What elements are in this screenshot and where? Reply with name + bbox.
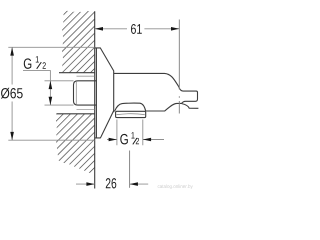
wall face line	[94, 11, 96, 188]
G1/2 bottom dim stubs	[107, 139, 164, 141]
dim ext line top (d65)	[8, 46, 94, 48]
wall hole bottom edge	[57, 113, 95, 115]
arrow 26 left	[86, 182, 94, 186]
centerline holder	[178, 20, 180, 114]
arrow d65 down	[10, 132, 14, 140]
watermark	[158, 184, 193, 189]
label d65	[1, 88, 23, 99]
label G1/2 bottom	[120, 134, 128, 144]
arrow G1/2 bottom left	[109, 138, 117, 142]
dim line d65	[11, 47, 13, 140]
wall hatch upper block	[62, 11, 95, 73]
escutcheon left edge	[95, 48, 97, 138]
nipple body	[74, 81, 97, 105]
centerline outlet	[129, 151, 131, 188]
wall hole top edge	[59, 72, 95, 74]
G1/2 ext line lower	[45, 104, 74, 106]
arrow d65 up	[10, 47, 14, 55]
arrow 61 right	[171, 27, 179, 31]
dim ext line bottom (d65)	[8, 139, 94, 141]
arrow G1/2 down	[49, 97, 53, 105]
label G1/2 top	[24, 58, 32, 68]
band inner arc	[117, 114, 145, 115]
arrow G1/2 up	[49, 81, 53, 89]
G1/2 ext line upper	[45, 80, 74, 82]
dim 26 left segment	[76, 183, 95, 185]
body top edge and shoulder	[114, 73, 198, 111]
dim line 61	[95, 28, 180, 30]
nipple chamfer line	[75, 81, 77, 105]
outlet dome	[115, 103, 146, 111]
wall hatch lower block	[56, 114, 95, 174]
holder lower lip	[182, 104, 199, 109]
G1/2 bottom ext lines	[117, 120, 143, 146]
label 26	[106, 178, 116, 188]
escutcheon outline	[95, 48, 114, 138]
label 61	[131, 24, 142, 34]
arrow G1/2 bottom right	[143, 138, 151, 142]
arrow 26 right	[130, 182, 138, 186]
outlet band	[116, 111, 146, 117]
arrow 61 left	[95, 27, 103, 31]
thread crest lines	[77, 76, 95, 109]
dim 26 right segment	[130, 183, 149, 185]
G1/2 leader	[23, 71, 50, 106]
